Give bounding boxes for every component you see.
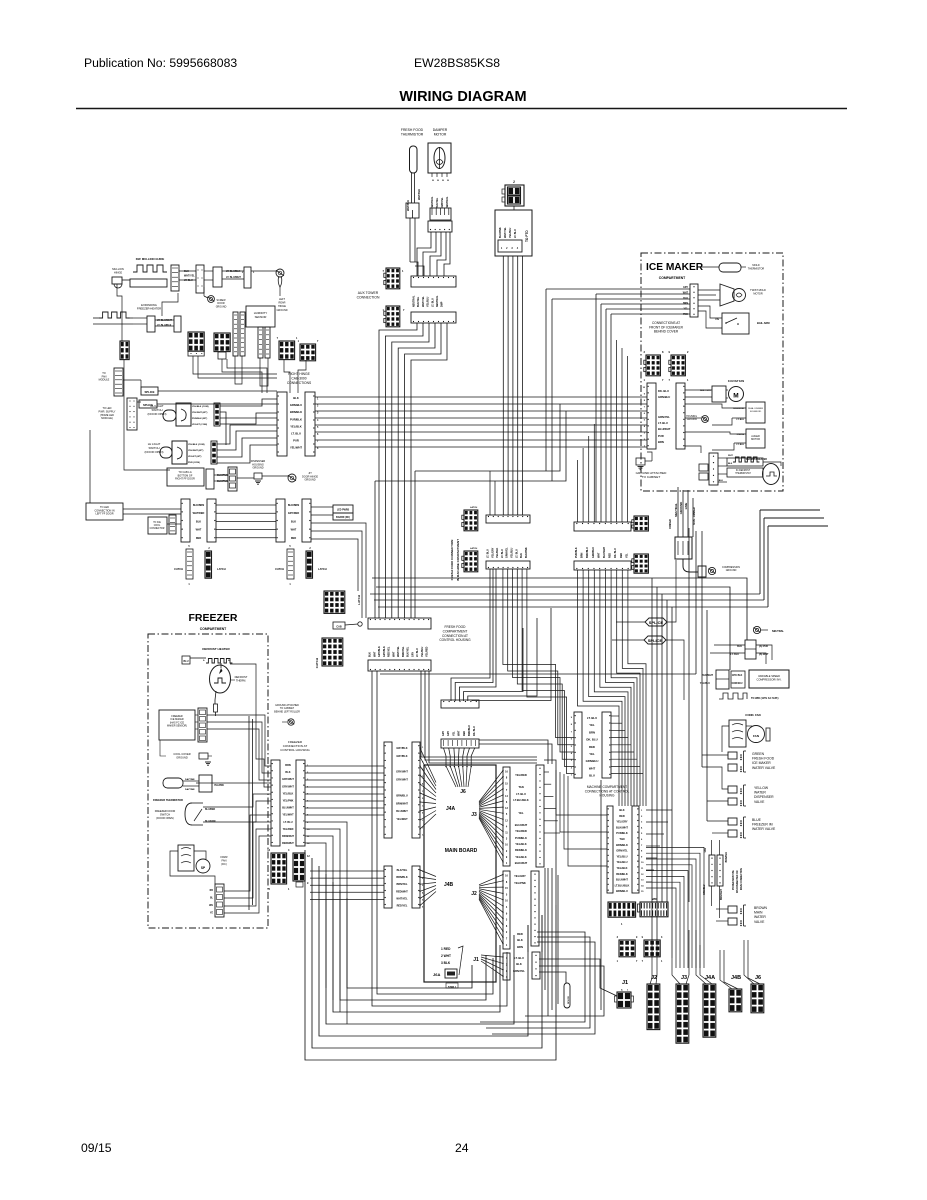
- small grid pair A: [619, 940, 635, 957]
- svg-text:BLK/BRN: BLK/BRN: [193, 504, 204, 507]
- svg-text:WHT/YEL: WHT/YEL: [184, 275, 195, 278]
- svg-text:GROUND: GROUND: [679, 502, 683, 514]
- svg-text:YEL/RED: YEL/RED: [515, 773, 527, 777]
- freezer internal wires: [160, 740, 166, 756]
- svg-text:BRN: BRN: [658, 440, 664, 444]
- wires into J4B from left: [310, 870, 384, 872]
- svg-text:WHT/YEL: WHT/YEL: [396, 897, 408, 900]
- svg-text:GRY: GRY: [447, 731, 450, 736]
- ice maker lower strip left: [647, 383, 656, 449]
- ff housing strip D2: [441, 739, 479, 748]
- freezer ice maker box: [159, 710, 195, 740]
- svg-text:WHT: WHT: [728, 455, 733, 457]
- damper motor pin ticks: [431, 173, 433, 177]
- svg-text:MAIN CONNECTION: MAIN CONNECTION: [740, 868, 743, 890]
- svg-text:AUX TOWER: AUX TOWER: [358, 291, 379, 295]
- svg-text:CONNECTION AT: CONNECTION AT: [442, 634, 468, 638]
- svg-text:LT. BLU: LT. BLU: [514, 229, 517, 238]
- svg-text:BRN/BLU: BRN/BLU: [468, 725, 471, 736]
- svg-text:DAYTIME: DAYTIME: [185, 778, 195, 781]
- connector grid pair right: [214, 333, 230, 352]
- svg-text:EXPANDING: EXPANDING: [141, 303, 157, 307]
- svg-text:NEUTRAL: NEUTRAL: [674, 503, 678, 517]
- J4B strip G1: [384, 866, 392, 908]
- svg-text:(A) PUR: (A) PUR: [759, 645, 768, 648]
- screw door ground icon: [208, 296, 215, 303]
- power cord verticals: [677, 487, 679, 537]
- water valve wires: [702, 754, 728, 756]
- to ice cool connector box: [148, 517, 167, 534]
- wires top-left to hinge strips: [193, 356, 277, 374]
- ice cool bar: [169, 515, 176, 534]
- dispenser ground symbol: [254, 473, 262, 479]
- svg-text:LATCH: LATCH: [318, 567, 327, 571]
- damper connector strip: [428, 221, 452, 232]
- connector grid pair left: [188, 332, 204, 351]
- svg-text:LT.BLU/BLK: LT.BLU/BLK: [513, 798, 528, 802]
- svg-text:CATCH: CATCH: [174, 567, 183, 571]
- svg-text:PUR: PUR: [658, 434, 664, 438]
- svg-text:BLU/WHT: BLU/WHT: [282, 807, 294, 810]
- splice S2: [139, 400, 157, 408]
- svg-text:CATCH: CATCH: [275, 567, 284, 571]
- svg-text:LT. BLU: LT. BLU: [514, 956, 524, 960]
- vertical feed x601: [600, 780, 602, 1010]
- svg-text:COMPARTMENT: COMPARTMENT: [659, 276, 686, 280]
- ice maker lower strip right: [676, 383, 685, 449]
- svg-text:LT. BLU: LT. BLU: [291, 432, 301, 436]
- svg-text:VALVE: VALVE: [754, 920, 765, 924]
- svg-text:BLK: BLK: [517, 938, 523, 942]
- svg-text:LT. BLU: LT. BLU: [283, 821, 292, 824]
- green fresh food water valve: [728, 752, 737, 759]
- svg-text:EW28BS85KS8: EW28BS85KS8: [414, 56, 500, 70]
- icemaker heater strip: [709, 453, 718, 485]
- overload wires: [714, 644, 745, 646]
- svg-text:LATCH: LATCH: [470, 506, 478, 509]
- svg-text:RJF MULLION GUIDE: RJF MULLION GUIDE: [136, 257, 165, 261]
- brown main water valve: [728, 906, 737, 913]
- svg-text:FREEZER-HEATER: FREEZER-HEATER: [137, 307, 161, 311]
- svg-text:WIRING DIAGRAM: WIRING DIAGRAM: [399, 89, 526, 105]
- svg-text:CONTROL HOUSING: CONTROL HOUSING: [280, 748, 310, 752]
- led module box: [330, 505, 331, 506]
- svg-text:REAR: REAR: [279, 302, 286, 305]
- svg-text:BLK: BLK: [728, 463, 733, 465]
- ff machine latch grid lower: [464, 551, 478, 572]
- led power supply bar: [127, 398, 137, 430]
- freezer grid lower A: [271, 853, 287, 884]
- to led connection left door box: [86, 503, 123, 520]
- svg-text:SPLICE: SPLICE: [649, 620, 664, 625]
- defrost heater blu tag: [182, 656, 190, 664]
- svg-text:YEL: YEL: [452, 731, 455, 736]
- svg-text:2 WHT: 2 WHT: [441, 954, 451, 958]
- right bundle verticals: [651, 578, 653, 940]
- svg-text:DEFROST: DEFROST: [235, 675, 248, 679]
- wires PTD down to machine strip: [502, 256, 504, 515]
- svg-text:34 EVAP FAN: 34 EVAP FAN: [728, 379, 744, 383]
- svg-text:BRN/BLU: BRN/BLU: [586, 547, 589, 558]
- loop left top links: [304, 846, 306, 850]
- twist mold motor: [720, 284, 734, 306]
- svg-text:BLK: BLK: [619, 808, 624, 812]
- LH light switch body: [172, 441, 187, 464]
- TO PTD box: [495, 210, 532, 256]
- svg-text:BEHIND COVER: BEHIND COVER: [654, 330, 679, 334]
- svg-text:LINE: LINE: [684, 503, 688, 510]
- svg-text:GRY/BLK: GRY/BLK: [396, 747, 407, 750]
- J4B strip G2: [412, 866, 420, 908]
- svg-text:RD: RD: [210, 890, 214, 892]
- variable speed compressor box: [749, 670, 789, 688]
- yellow dispenser water valve: [728, 786, 737, 793]
- splice flag S4: [644, 636, 666, 644]
- svg-text:COMPARTMENT: COMPARTMENT: [443, 629, 468, 633]
- right bundle horizontals to valves: [696, 673, 702, 675]
- svg-text:LT. BLU: LT. BLU: [431, 298, 434, 307]
- svg-text:LT. BLU: LT. BLU: [587, 716, 597, 720]
- svg-text:WHT: WHT: [196, 529, 202, 532]
- svg-text:TAN: TAN: [518, 785, 523, 789]
- ice maker head strip: [690, 284, 698, 317]
- cab box: [333, 622, 345, 629]
- main bus wires to ice maker: [315, 396, 647, 398]
- svg-text:COM NEU: COM NEU: [732, 683, 743, 685]
- svg-text:YEL/RED: YEL/RED: [283, 828, 294, 831]
- svg-text:BLU: BLU: [589, 774, 595, 778]
- svg-text:COND. FAN: COND. FAN: [745, 713, 760, 717]
- svg-text:TAN: TAN: [704, 848, 707, 853]
- svg-text:YEL/RED: YEL/RED: [426, 646, 429, 657]
- ff control housing strip lower: [368, 660, 431, 671]
- svg-text:RED/WHT: RED/WHT: [396, 890, 408, 893]
- svg-text:FAN: FAN: [221, 859, 226, 863]
- svg-text:LT. BLU: LT. BLU: [736, 419, 744, 421]
- wires led board: [311, 506, 333, 508]
- svg-text:BRN: BRN: [589, 730, 595, 734]
- wid connector grid A: [608, 902, 636, 917]
- wires machine strip verticals up: [577, 460, 579, 522]
- svg-text:BLUE: BLUE: [752, 818, 762, 822]
- left door wires across: [216, 504, 276, 506]
- fresh food thermistor bulb: [410, 146, 418, 173]
- svg-text:RIGHT FF DOOR: RIGHT FF DOOR: [175, 478, 195, 481]
- svg-text:RED: RED: [517, 932, 523, 936]
- J4A strip F2: [412, 742, 420, 838]
- svg-text:VIOLET (WT): VIOLET (WT): [188, 456, 202, 458]
- svg-text:YEL/BLK (COM): YEL/BLK (COM): [188, 444, 205, 446]
- svg-text:DK. BLU: DK. BLU: [658, 389, 669, 393]
- freezer heater connector bar A: [147, 316, 155, 332]
- ff housing strip D1: [441, 700, 479, 708]
- svg-text:J6: J6: [460, 789, 466, 795]
- bail arm box: [722, 313, 749, 334]
- svg-text:COOL COVER: COOL COVER: [173, 752, 190, 756]
- svg-text:LT. BLU: LT. BLU: [515, 549, 518, 558]
- ff machine latch grid upper: [464, 510, 478, 531]
- svg-text:GRN/BLU: GRN/BLU: [592, 547, 595, 558]
- svg-text:BRN/BLU: BRN/BLU: [396, 794, 407, 797]
- wires D2 right to H2: [479, 740, 548, 764]
- wires into L1 left: [556, 770, 607, 815]
- svg-text:J4A: J4A: [446, 806, 456, 812]
- svg-text:YEL/WHT: YEL/WHT: [290, 446, 302, 450]
- loop top links: [544, 760, 556, 905]
- svg-text:CONNECTION: CONNECTION: [357, 296, 380, 300]
- svg-text:RED/WHT: RED/WHT: [282, 842, 294, 845]
- svg-text:GRY/WHT: GRY/WHT: [396, 771, 408, 774]
- machine L strip right: [632, 806, 639, 893]
- svg-text:NEUTRAL: NEUTRAL: [446, 196, 449, 208]
- catch symbol 1: [186, 549, 193, 579]
- wires into bottom connector tops: [650, 940, 652, 984]
- svg-text:GRY/BLK: GRY/BLK: [383, 646, 386, 657]
- svg-text:FREEZER DOOR: FREEZER DOOR: [155, 809, 176, 813]
- svg-text:YEL/BLK: YEL/BLK: [616, 866, 627, 870]
- machine K strip left: [574, 712, 582, 778]
- wires J2 J1 outer right-down: [480, 932, 585, 1022]
- svg-text:IN MACHINE COMPARTMENT: IN MACHINE COMPARTMENT: [456, 539, 460, 581]
- svg-text:YEL/PNK: YEL/PNK: [514, 881, 526, 885]
- svg-text:WATER: WATER: [754, 915, 766, 919]
- svg-text:YEL/GRY: YEL/GRY: [616, 820, 628, 824]
- freezer thermistor: [163, 778, 183, 788]
- svg-text:FREEZER THERMISTOR: FREEZER THERMISTOR: [153, 798, 183, 802]
- svg-text:YEL/BLU: YEL/BLU: [421, 646, 424, 657]
- svg-text:1 RED: 1 RED: [441, 947, 451, 951]
- svg-text:09/15: 09/15: [81, 1141, 112, 1155]
- svg-text:STEP 1: STEP 1: [448, 986, 457, 989]
- svg-text:(DOOR OPEN): (DOOR OPEN): [145, 450, 164, 454]
- svg-text:PUR/BLK: PUR/BLK: [575, 547, 578, 558]
- RH switch wires: [220, 399, 277, 406]
- svg-text:Publication No: 5995668083: Publication No: 5995668083: [84, 56, 237, 70]
- svg-text:YEL/BLK: YEL/BLK: [515, 842, 527, 846]
- svg-text:BLK/YEL: BLK/YEL: [407, 646, 410, 657]
- svg-text:WID: WID: [652, 897, 657, 901]
- svg-text:THERMISTOR: THERMISTOR: [401, 133, 424, 137]
- svg-text:ICE MAKER: ICE MAKER: [752, 761, 771, 765]
- svg-text:FRESH FOOD: FRESH FOOD: [752, 757, 775, 761]
- svg-text:FREEZER IM: FREEZER IM: [752, 823, 773, 827]
- svg-text:BOARD (DC): BOARD (DC): [336, 516, 350, 519]
- svg-text:WHT: WHT: [392, 651, 395, 657]
- door hinge ground screw: [288, 474, 296, 482]
- mullion connector bar B: [196, 265, 204, 293]
- ff machine strip lower: [486, 561, 530, 569]
- svg-text:RIGHT HINGE: RIGHT HINGE: [288, 372, 310, 376]
- svg-text:YEL: YEL: [589, 752, 595, 756]
- splice flag S3: [645, 618, 667, 626]
- splice S1: [141, 387, 158, 395]
- svg-text:WHT/BLK: WHT/BLK: [418, 189, 421, 200]
- connector 2 to PTD: [505, 185, 524, 206]
- svg-text:BRN/WHT: BRN/WHT: [282, 835, 294, 838]
- wires damper to aux strip: [417, 232, 431, 276]
- svg-text:YEL/BLK: YEL/BLK: [496, 547, 499, 558]
- center vertical bundle from icemaker: [545, 289, 547, 471]
- svg-text:J1: J1: [622, 980, 628, 986]
- splice pill vertical: [564, 983, 570, 1008]
- wires machine strip pair down to L strips: [578, 570, 620, 806]
- evap fan connector: [712, 386, 726, 402]
- svg-text:LT. BLU: LT. BLU: [730, 653, 739, 656]
- svg-text:WHT: WHT: [291, 529, 297, 532]
- svg-text:DK. BLU: DK. BLU: [473, 726, 476, 736]
- svg-text:WHT/YEL: WHT/YEL: [422, 296, 425, 307]
- mullion mid wires: [179, 270, 196, 272]
- right hinge strip right: [305, 392, 315, 456]
- svg-text:J4A: J4A: [705, 975, 715, 981]
- svg-text:BRN/WHT: BRN/WHT: [721, 889, 723, 900]
- grid F right: [300, 344, 316, 361]
- RH switch connector bar: [214, 403, 220, 426]
- J2 outer connector: [531, 871, 539, 946]
- svg-text:(DOOR OPEN): (DOOR OPEN): [156, 816, 174, 820]
- svg-text:GRN/YEL: GRN/YEL: [513, 969, 525, 973]
- svg-text:WHT: WHT: [373, 651, 376, 657]
- svg-text:FRESH FOOD CONNECTION: FRESH FOOD CONNECTION: [450, 540, 454, 581]
- svg-text:PUR: PUR: [293, 439, 299, 443]
- svg-text:BLU/WHT: BLU/WHT: [616, 878, 628, 882]
- svg-text:RED/BLK: RED/BLK: [616, 872, 628, 876]
- ice maker grid B: [671, 355, 685, 376]
- svg-text:YEL/PNK: YEL/PNK: [214, 785, 224, 787]
- bottom J4A connector: [703, 984, 716, 1037]
- svg-text:YEL/BLK: YEL/BLK: [283, 792, 294, 795]
- J1 outer connector: [532, 952, 540, 979]
- wires freezer to loops: [305, 822, 347, 1024]
- svg-text:NEUTRAL: NEUTRAL: [772, 630, 784, 633]
- svg-text:2: 2: [513, 180, 515, 184]
- svg-text:DISPENSER: DISPENSER: [754, 795, 774, 799]
- svg-text:GRY/RED: GRY/RED: [288, 512, 299, 515]
- svg-text:BLK/PNK: BLK/PNK: [525, 547, 528, 558]
- ff machine strip upper: [486, 515, 530, 523]
- power cord body: [675, 537, 692, 559]
- J3 pin strip: [503, 767, 510, 866]
- svg-text:DMP: DMP: [441, 301, 444, 307]
- svg-text:YEL/BLU: YEL/BLU: [616, 860, 627, 864]
- svg-text:RED: RED: [463, 731, 466, 736]
- svg-text:34 DEFROST: 34 DEFROST: [736, 470, 751, 472]
- svg-text:NEUTRAL: NEUTRAL: [431, 196, 434, 208]
- auger motor box: [746, 429, 765, 448]
- svg-text:GRN/YEL: GRN/YEL: [506, 547, 509, 558]
- svg-text:YEL/PNK: YEL/PNK: [283, 800, 294, 803]
- svg-text:SOLENOID: SOLENOID: [750, 411, 762, 413]
- wires icemaker head staircase: [546, 288, 690, 290]
- icemaker aux boxes: [699, 464, 708, 471]
- svg-text:THERMOSTAT: THERMOSTAT: [735, 472, 751, 475]
- svg-text:ICE MAKER: ICE MAKER: [646, 262, 704, 273]
- condenser fan wires: [746, 725, 752, 727]
- left hatched grid: [120, 341, 129, 360]
- svg-text:J2: J2: [651, 975, 657, 981]
- svg-text:J6A: J6A: [433, 972, 440, 977]
- svg-text:YEL/WHT: YEL/WHT: [396, 818, 408, 821]
- freezer fan connector: [215, 884, 224, 917]
- wires D1 nested corners from right: [451, 569, 490, 701]
- svg-text:YEL/WHT (WT): YEL/WHT (WT): [188, 450, 204, 452]
- svg-text:WHT: WHT: [597, 552, 600, 558]
- svg-text:WATER: WATER: [754, 791, 766, 795]
- svg-text:J3: J3: [471, 812, 477, 818]
- svg-text:BRN/BLU: BRN/BLU: [726, 852, 728, 863]
- svg-text:GROUND: GROUND: [726, 569, 737, 572]
- led power board box: [333, 505, 353, 513]
- bottom J1 connector: [617, 992, 631, 1008]
- freezer collector verticals: [248, 716, 250, 910]
- J2 pin strip: [503, 871, 510, 949]
- svg-text:FRESH FOOD: FRESH FOOD: [445, 625, 467, 629]
- bus branch wires down: [545, 404, 560, 471]
- svg-text:SPLICE: SPLICE: [144, 390, 154, 394]
- svg-text:FRZR: FRZR: [221, 855, 228, 859]
- svg-text:VARIABLE SPEED: VARIABLE SPEED: [758, 674, 780, 678]
- expanding freezer heater coil: [99, 312, 130, 318]
- svg-text:VALVE: VALVE: [754, 800, 765, 804]
- svg-text:BRN/BLK: BRN/BLK: [396, 876, 407, 879]
- svg-text:BLK/PNK: BLK/PNK: [217, 480, 228, 483]
- svg-text:WH: WH: [209, 905, 213, 907]
- long horizontal bus mid: [372, 578, 747, 640]
- svg-text:BRN/BLK: BRN/BLK: [290, 410, 302, 414]
- power cord plug: [683, 559, 698, 572]
- damper comb connector: [430, 208, 451, 220]
- machine latch grid lower: [634, 554, 648, 573]
- svg-text:RED: RED: [589, 745, 595, 749]
- svg-text:GRN/YEL: GRN/YEL: [658, 415, 670, 419]
- svg-text:(B) WHT: (B) WHT: [759, 653, 769, 656]
- housing ground circle: [702, 416, 709, 423]
- wires latch strip C2 down to board: [421, 671, 537, 757]
- svg-text:J4B: J4B: [444, 882, 454, 888]
- svg-text:J6: J6: [755, 975, 761, 981]
- svg-text:GROUND: GROUND: [176, 755, 188, 759]
- svg-text:RED: RED: [619, 814, 625, 818]
- svg-text:LT. BLU/BLK: LT. BLU/BLK: [226, 270, 241, 273]
- wires freezer strips right: [305, 765, 384, 767]
- inverter connector: [716, 670, 729, 689]
- svg-text:YEL: YEL: [589, 723, 595, 727]
- svg-text:SWITCH: SWITCH: [160, 813, 170, 817]
- svg-text:LED PWRB: LED PWRB: [337, 510, 350, 512]
- catch symbol 2: [287, 549, 294, 579]
- verticals right of board down: [547, 868, 549, 1016]
- svg-text:LT. BLU: LT. BLU: [658, 421, 668, 425]
- svg-text:BLK/YEL: BLK/YEL: [436, 197, 439, 208]
- left bundle verticals: [380, 671, 382, 742]
- mullion box C: [213, 267, 222, 287]
- fan wires D2 to main board top: [444, 748, 447, 765]
- svg-text:DK. BLU: DK. BLU: [614, 548, 617, 558]
- svg-text:PUR/BLK (WT): PUR/BLK (WT): [192, 418, 207, 420]
- svg-text:J2: J2: [471, 891, 477, 897]
- fresh food thermistor connector: [406, 203, 419, 218]
- mullion heater coil: [133, 265, 167, 272]
- svg-text:GROUND: GROUND: [687, 419, 698, 421]
- svg-text:J3: J3: [681, 975, 687, 981]
- svg-text:115V BLK: 115V BLK: [732, 675, 743, 677]
- svg-text:BLU/PNK: BLU/PNK: [499, 227, 502, 238]
- svg-text:WHT/RED: WHT/RED: [193, 512, 205, 515]
- svg-text:BLK: BLK: [520, 553, 523, 558]
- svg-text:FRESH FOOD: FRESH FOOD: [401, 128, 424, 132]
- svg-text:BRN/YEL: BRN/YEL: [397, 883, 408, 886]
- svg-text:RED: RED: [609, 553, 612, 558]
